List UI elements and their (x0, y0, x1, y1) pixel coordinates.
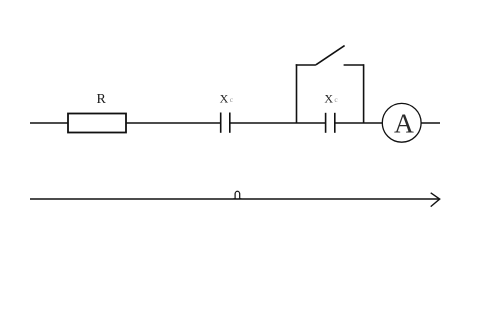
svg-text:X: X (324, 91, 333, 105)
svg-text:c: c (230, 95, 234, 104)
svg-text:X: X (220, 91, 229, 105)
svg-text:A: A (394, 107, 414, 138)
svg-text:R: R (97, 92, 107, 107)
svg-text:c: c (334, 95, 338, 104)
